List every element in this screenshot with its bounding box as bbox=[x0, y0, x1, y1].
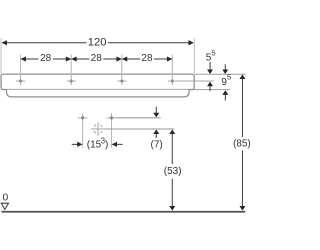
tap hole marker 2 bbox=[67, 77, 76, 85]
dimension (53) line upper bbox=[171, 134, 173, 164]
dimension 28 first segment bbox=[21, 58, 71, 60]
tap hole marker 3 bbox=[117, 77, 126, 85]
svg-text:0: 0 bbox=[3, 193, 9, 204]
hole centre reference line right bbox=[177, 80, 214, 82]
extension line hole 1 bbox=[20, 55, 22, 78]
drain hole dashed circle bbox=[91, 122, 104, 136]
svg-text:(85): (85) bbox=[233, 138, 250, 149]
dimension 5-5 top arrow bbox=[207, 62, 213, 74]
slab top reference line right bbox=[195, 73, 246, 75]
zero level triangle bbox=[1, 203, 8, 209]
washbasin slab outline bbox=[1, 74, 194, 89]
dimension (85) line lower bbox=[241, 150, 243, 206]
tap hole marker 1 bbox=[16, 77, 25, 85]
dimension 9-5 top arrow bbox=[222, 64, 228, 74]
dimension (7) top arrow bbox=[153, 107, 159, 118]
svg-text:(53): (53) bbox=[164, 166, 182, 177]
extension line hole 4 bbox=[171, 55, 173, 78]
dimension (53) bottom arrow bbox=[169, 206, 175, 211]
dimension (7) bottom arrow bbox=[153, 129, 159, 138]
dimension (15-3) left arrow bbox=[72, 142, 83, 147]
dimension 120 right arrow bbox=[188, 40, 193, 45]
dimension (85) top arrow bbox=[239, 74, 245, 79]
svg-text:(7): (7) bbox=[151, 140, 163, 151]
template cross A bbox=[78, 113, 88, 122]
svg-text:28: 28 bbox=[40, 53, 52, 64]
dimension 28 second segment bbox=[72, 58, 122, 60]
dimension 5-5 bottom arrow bbox=[207, 82, 213, 92]
dimension 120 left arrow bbox=[2, 40, 7, 45]
tap hole marker 4 bbox=[168, 77, 177, 85]
dimension (85) line upper bbox=[241, 79, 243, 137]
template cross B bbox=[107, 113, 117, 122]
dimension (15-3) right arrow bbox=[112, 142, 123, 147]
dimension 28 third segment bbox=[122, 58, 171, 60]
svg-text:(15: (15 bbox=[87, 139, 102, 150]
extension line cross B down bbox=[111, 122, 113, 147]
apron top reference line right bbox=[188, 89, 230, 91]
extension line right edge (120 dim) bbox=[193, 38, 195, 73]
svg-text:120: 120 bbox=[88, 36, 107, 48]
svg-text:28: 28 bbox=[91, 53, 103, 64]
svg-text:28: 28 bbox=[141, 53, 153, 64]
dimension 9-5 bottom arrow bbox=[222, 90, 228, 100]
floor line bbox=[1, 211, 245, 213]
zero level underline bbox=[1, 202, 9, 204]
washbasin bowl apron bbox=[7, 90, 190, 97]
extension line hole 3 bbox=[121, 55, 123, 78]
dimension 120 line bbox=[2, 42, 193, 44]
svg-text:): ) bbox=[105, 139, 108, 150]
dimension (53) line lower bbox=[171, 179, 173, 207]
extension line hole 2 bbox=[70, 55, 72, 78]
drain centre line to (53) bbox=[104, 128, 174, 130]
extension line left edge (120 dim) bbox=[0, 38, 2, 73]
svg-text:5: 5 bbox=[227, 73, 231, 82]
dimension (85) bottom arrow bbox=[239, 206, 245, 211]
extension line cross A down bbox=[82, 122, 84, 147]
dimension (53) top arrow bbox=[169, 129, 175, 134]
tap centre line to (7) bbox=[116, 117, 160, 119]
svg-text:5: 5 bbox=[211, 48, 215, 57]
